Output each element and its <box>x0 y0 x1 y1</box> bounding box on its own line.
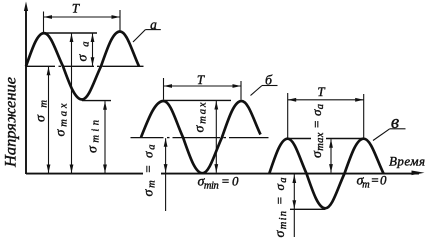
curve label a with leader <box>133 17 161 42</box>
svg-text:σm = 0: σm = 0 <box>357 173 388 191</box>
peak level line (wave в) <box>288 138 364 140</box>
svg-text:T: T <box>197 72 205 87</box>
mean-level dash-dot centerline (wave a) <box>26 65 144 67</box>
period dimension T (wave b) <box>164 78 242 100</box>
curve label в with leader <box>373 112 406 141</box>
y-axis (stress axis) <box>24 2 28 175</box>
dimension sigma_max (wave b) <box>214 101 218 173</box>
svg-text:σm: σm <box>34 100 50 122</box>
svg-text:σa: σa <box>76 42 92 62</box>
svg-text:б: б <box>265 74 273 89</box>
sine wave b (pulsating cycle) <box>141 101 261 173</box>
svg-text:а: а <box>150 17 157 32</box>
svg-text:σmin = σa: σmin = σa <box>272 178 289 238</box>
dimension sigma_max (wave a) <box>70 34 74 174</box>
svg-text:Время: Время <box>389 153 425 168</box>
dimension sigma_m = sigma_a (wave b) <box>164 138 168 211</box>
period dimension T (wave a) <box>44 10 121 32</box>
dimension sigma_min (wave a) <box>103 101 107 173</box>
svg-text:T: T <box>72 0 80 15</box>
period dimension T (wave в) <box>288 93 364 138</box>
sine wave в (symmetric cycle) <box>269 139 383 209</box>
svg-text:σm = σa: σm = σa <box>141 145 158 197</box>
peak level line sigma_max (wave b) <box>164 99 232 101</box>
dimension sigma_a (wave a) <box>91 34 95 66</box>
peak level line sigma_max (wave a) <box>44 32 97 34</box>
time axis / zero-stress baseline <box>26 171 425 176</box>
dimension sigma_m (wave a) <box>47 67 51 173</box>
svg-text:Напряжение: Напряжение <box>3 77 20 168</box>
svg-text:в: в <box>391 112 399 133</box>
svg-text:σmin: σmin <box>86 120 102 153</box>
svg-text:σmax: σmax <box>54 103 70 136</box>
svg-text:σmin = 0: σmin = 0 <box>198 174 240 192</box>
sine wave a (asymmetric cycle) <box>26 32 139 100</box>
svg-text:σmax = σa: σmax = σa <box>309 104 326 158</box>
dimension sigma_min = sigma_a (wave в) <box>292 175 296 238</box>
curve label б with leader <box>251 74 278 96</box>
trough level line (wave в) <box>290 208 325 210</box>
mean-level dash-dot centerline (wave b) <box>131 137 269 139</box>
svg-text:σmax: σmax <box>193 102 209 132</box>
trough level line sigma_min (wave a) <box>82 100 111 102</box>
svg-text:T: T <box>317 84 325 99</box>
dimension sigma_max = sigma_a (wave в) <box>329 139 333 172</box>
